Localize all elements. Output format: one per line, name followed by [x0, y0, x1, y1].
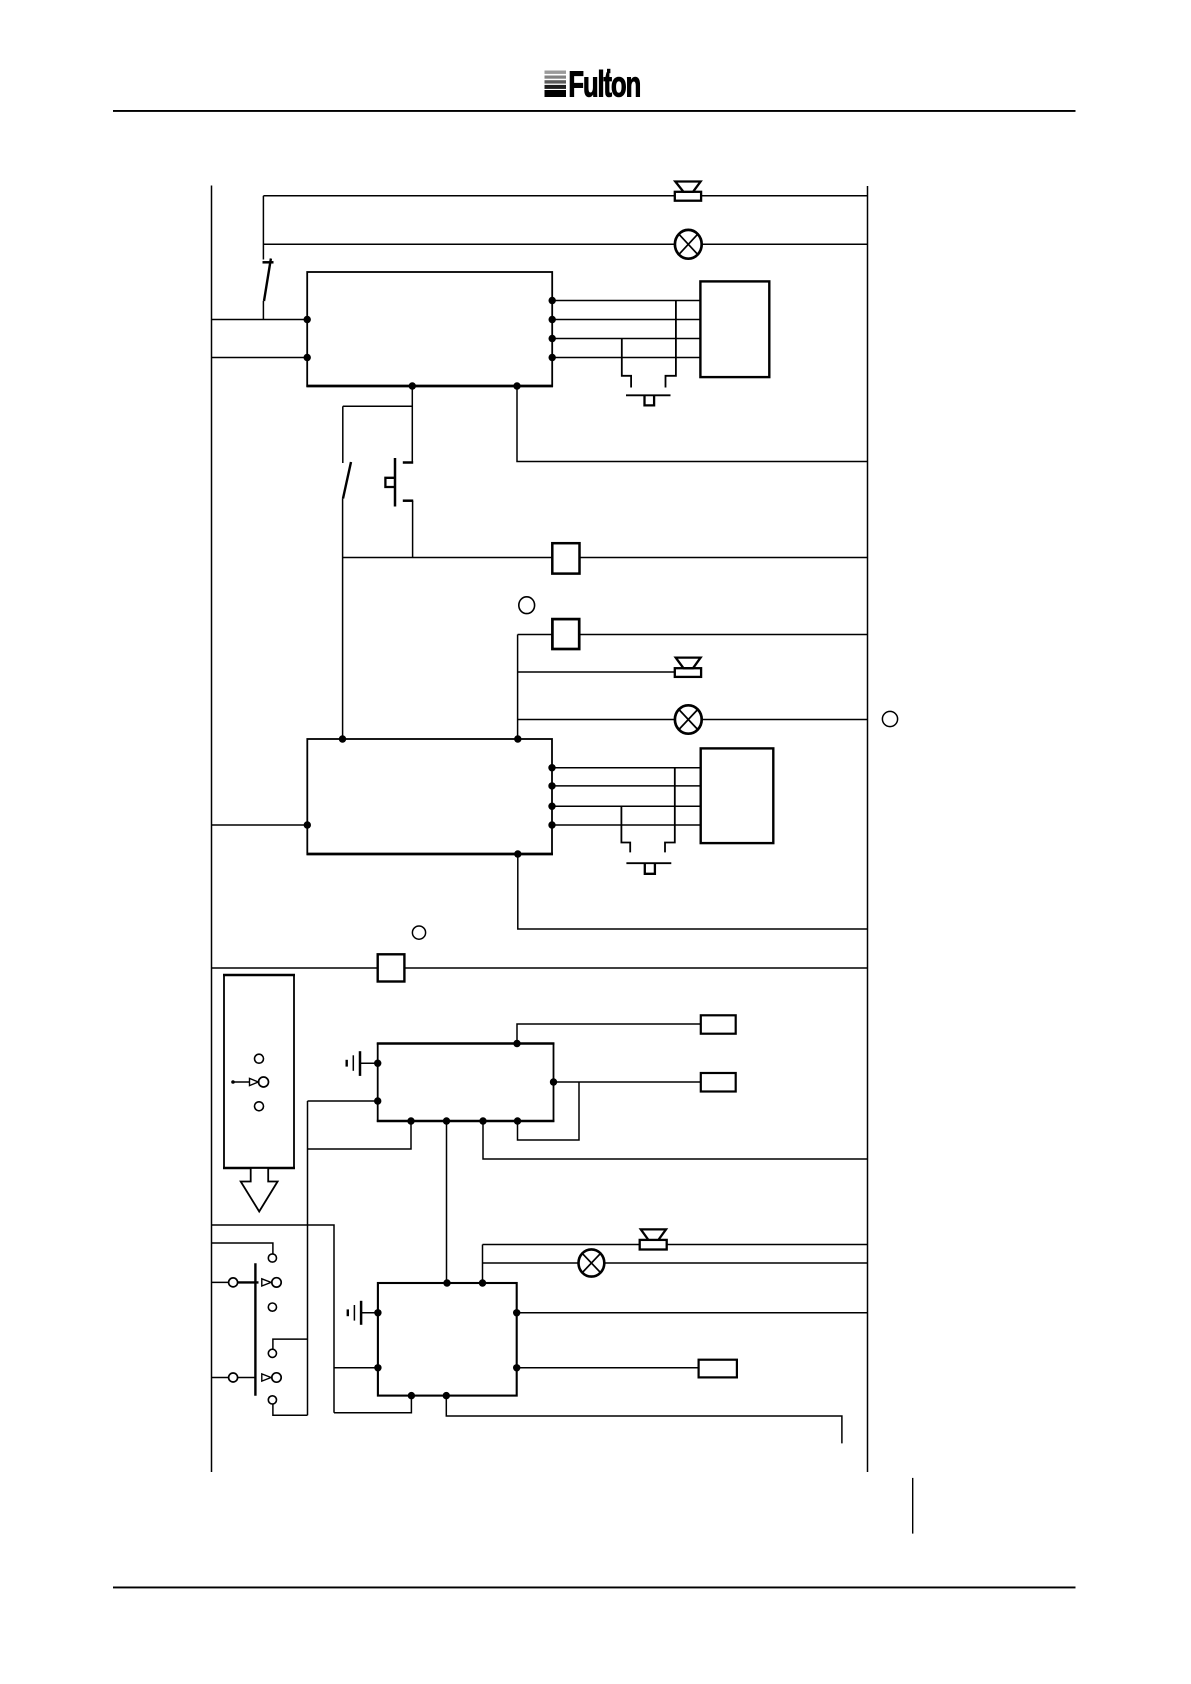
wire A3 bottom 3 to bus L2 [483, 1121, 868, 1159]
ground G2 wire [361, 1312, 378, 1314]
switch S1 blade [264, 259, 271, 302]
node A4 pin left 2 [374, 1364, 381, 1371]
wire A2 bottom node to bus L2 [518, 854, 868, 929]
program relay control box A1 [306, 272, 553, 386]
wire bus L1 to fuse F3 [212, 967, 378, 969]
horn HA1 [675, 182, 701, 201]
spark gap cup 1 [645, 395, 655, 405]
wire riser x517 to box A2 [517, 635, 519, 740]
electrode E1a [666, 301, 676, 388]
ground G1 [347, 1051, 360, 1076]
wire A1 pin R1 to transformer T1 [552, 300, 700, 302]
wire A2 pin R4 to transformer T2 [552, 824, 701, 826]
wire A2 pin R1 to transformer T2 [552, 767, 701, 769]
node A4 pin bottom 1 [408, 1392, 415, 1399]
wire A3 top pin to relay contact K1 [517, 1024, 701, 1044]
node A3 pin left 2 [374, 1097, 381, 1104]
electrode E1b [622, 339, 631, 388]
node A3 pin bottom 1 [407, 1117, 414, 1124]
wire fuse F2 to bus L2 [579, 634, 867, 636]
disconnect terminal D2 [268, 1303, 276, 1311]
ground G1 wire [360, 1062, 378, 1064]
disconnect terminal D4 [268, 1396, 276, 1404]
fuse F3 [378, 954, 405, 981]
disconnect terminal D3 [268, 1349, 276, 1357]
wire A3 bottom 4 loop to K2 wire [518, 1082, 580, 1140]
disconnect pole 2 arrowhead [262, 1374, 271, 1381]
terminal circle C1 [519, 597, 535, 614]
disconnect pole 1 arrowhead [262, 1279, 271, 1286]
horn HA2 [675, 658, 701, 677]
electrode E2a [665, 768, 675, 853]
TB1 terminal circle a [255, 1054, 264, 1063]
node A4 pin right 2 [513, 1364, 520, 1371]
node A3 pin top [513, 1040, 520, 1047]
wire A3 bottom 1 to net N1 [308, 1121, 412, 1149]
wire to horn HA2 [518, 671, 675, 673]
wire bus L1 to box A2 pin left [212, 824, 308, 826]
disconnect operating bar [254, 1263, 256, 1396]
terminal circle C3 [412, 926, 425, 939]
node A1 pin left 1 [304, 316, 311, 323]
node A2 pin top 1 [339, 735, 346, 742]
spark gap cup 2 [645, 863, 655, 874]
node A1 pin bottom 2 [513, 382, 520, 389]
header rule [113, 110, 1076, 112]
lamp LT1 [675, 230, 702, 259]
wire A2 pin R3 to transformer T2 [552, 805, 701, 807]
Fulton logo stripe block [545, 71, 567, 98]
wire A1 pin R2 to transformer T1 [552, 319, 700, 321]
wire PB1 bottom lead [412, 501, 414, 558]
TB1 wiper pivot dot [231, 1080, 235, 1084]
wire bus L1 rail to net N2 [212, 1225, 335, 1413]
node A1 pin right 4 [549, 354, 556, 361]
pressure control block TB1 [223, 975, 295, 1168]
lamp LT2 [675, 705, 702, 733]
node A2 pin bottom [514, 850, 521, 857]
node A2 pin right 3 [548, 803, 555, 810]
footer rule [113, 1587, 1076, 1589]
wire A4 bottom 1 to net N2 [334, 1396, 411, 1413]
program relay control box A2 [307, 739, 554, 854]
page fold mark [912, 1478, 914, 1534]
wire terminal D4 to net N1 [273, 1404, 308, 1415]
ground G2 [348, 1301, 361, 1325]
disconnect pole 1 right terminal [272, 1278, 281, 1287]
right supply bus L2 [867, 186, 869, 1472]
TB1 terminal circle b [259, 1077, 269, 1087]
net N1 vertical [307, 1101, 309, 1415]
relay contact K3 [699, 1360, 737, 1378]
relay contact K1 [701, 1015, 736, 1033]
node A4 pin left 1 [374, 1309, 381, 1316]
node A2 pin right 1 [548, 764, 555, 771]
low water cutoff box A4 [378, 1283, 517, 1396]
wire A1 pin R3 to transformer T1 [552, 338, 700, 340]
wire bus L1 to disconnect pole 1 [212, 1281, 229, 1283]
wire riser to fuse F2 [518, 634, 553, 636]
ignition transformer T1 [700, 281, 769, 377]
horn HA3 [640, 1229, 667, 1249]
node A4 pin top 2 [479, 1279, 486, 1286]
wire A1 bottom node 1 down to pushbutton PB1 [411, 386, 413, 462]
wire: switch S1 top to horn HA1 and bus L2 [263, 195, 867, 197]
node A1 pin right 2 [549, 316, 556, 323]
node A4 pin bottom 2 [443, 1392, 450, 1399]
electrode E2b [621, 806, 630, 852]
relay contact K2 [701, 1073, 736, 1092]
disconnect pole 1 shaft [238, 1281, 259, 1283]
node A3 pin right [550, 1078, 557, 1085]
wire: bus L1 to control box A1 pin L1 [212, 319, 308, 321]
node A3 pin bottom 2 [443, 1117, 450, 1124]
pushbutton PB1 contact bottom [403, 499, 413, 502]
wire A3 right pin to relay contact K2 [554, 1081, 701, 1083]
node A2 pin right 2 [548, 782, 555, 789]
node A4 pin top 1 [443, 1279, 450, 1286]
node A3 pin bottom 3 [479, 1117, 486, 1124]
node A1 pin right 3 [549, 335, 556, 342]
wire bus L1 to terminal D1 [212, 1243, 273, 1254]
pushbutton PB1 contact top [403, 461, 413, 464]
wire: riser to switch S1 [262, 196, 264, 260]
fuse F2 [552, 619, 579, 649]
TB1 terminal circle c [255, 1102, 264, 1111]
wire fuse F3 to bus L2 [404, 967, 867, 969]
switch S1 fixed contact [263, 261, 274, 264]
terminal circle C2 right of bus [882, 711, 897, 726]
node A1 pin right 1 [549, 297, 556, 304]
node A1 pin left 2 [304, 354, 311, 361]
wire net N2 to A4 pin left 2 [334, 1367, 378, 1369]
wire A1 bottom node 2 to bus L2 [517, 386, 868, 462]
wire A4 pin right 1 to bus L2 [517, 1312, 868, 1314]
wire interlock to fuse F1 [343, 557, 553, 559]
wire A4 pin right 2 to relay contact K3 [517, 1367, 699, 1369]
svg-text:Fulton: Fulton [568, 63, 640, 105]
wire: switch S1 bottom lead [262, 301, 264, 320]
node A4 pin right 1 [513, 1309, 520, 1316]
burner ground strip 2 [626, 862, 671, 864]
node A2 pin left [304, 821, 311, 828]
wire S2 top lead [342, 406, 344, 463]
TB1 wiper arrowhead [250, 1078, 259, 1085]
node A2 pin right 4 [548, 821, 555, 828]
disconnect terminal D1 [268, 1254, 276, 1262]
wire A4 top 2 riser [482, 1245, 484, 1284]
wire terminal D3 to net N1 [273, 1339, 308, 1349]
pushbutton PB1 actuator bar [394, 458, 397, 507]
burner ground strip 1 [626, 394, 671, 396]
wire A1 pin R4 to transformer T1 [552, 357, 700, 359]
wire A3 bottom 2 riser to box A4 [446, 1121, 448, 1283]
disconnect pole 1 left terminal [229, 1278, 238, 1287]
node A1 pin bottom 1 [409, 382, 416, 389]
Fulton logo wordmark [568, 63, 640, 105]
TB1 wiper arrow shaft [233, 1081, 250, 1083]
wire S2 bottom lead [342, 499, 344, 558]
fuse F1 [552, 543, 579, 573]
left supply bus L1 [211, 186, 213, 1473]
wire to horn HA3 and bus L2 [483, 1244, 868, 1246]
wire bus L1 to disconnect pole 2 [212, 1377, 229, 1379]
wire A2 pin R2 to transformer T2 [552, 785, 701, 787]
wire fuse F1 to bus L2 [580, 557, 868, 559]
disconnect pole 2 shaft [238, 1377, 257, 1379]
switch S2 blade [343, 462, 351, 499]
wire: lamp LT1 branch [263, 243, 867, 245]
control board A3 [377, 1044, 555, 1122]
node A2 pin top 2 [514, 735, 521, 742]
disconnect pole 2 right terminal [272, 1373, 281, 1382]
disconnect pole 2 left terminal [229, 1373, 238, 1382]
wire: bus L1 to control box A1 pin L2 [212, 357, 308, 359]
pushbutton PB1 button cap [385, 478, 395, 487]
wire branch to switch S2 [343, 405, 413, 407]
lamp LT3 [579, 1249, 605, 1276]
wire A4 bottom 2 drop lead [446, 1396, 842, 1444]
ignition transformer T2 [701, 748, 774, 843]
wire A3 pin left 2 to net N1 [308, 1100, 378, 1102]
wire interlock riser to A2 top node 1 [342, 558, 344, 740]
wire to lamp LT3 and bus L2 [483, 1262, 868, 1264]
wire to lamp LT2 and bus L2 [518, 719, 868, 721]
node A3 pin bottom 4 [514, 1117, 521, 1124]
node A3 pin left 1 [374, 1060, 381, 1067]
steam pressure hollow arrow [241, 1168, 278, 1212]
